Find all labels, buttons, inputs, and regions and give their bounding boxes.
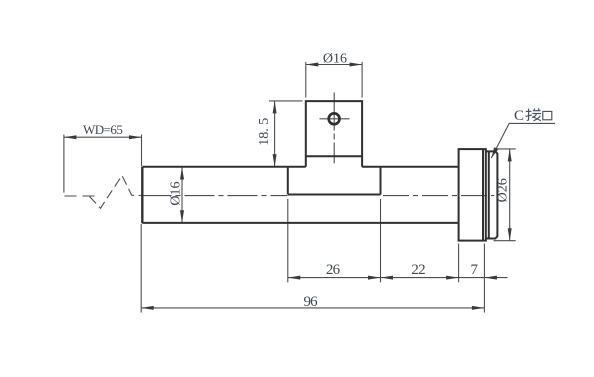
- svg-text:Ø16: Ø16: [323, 52, 347, 67]
- svg-text:C: C: [514, 108, 524, 124]
- svg-text:18. 5: 18. 5: [257, 118, 272, 146]
- svg-text:26: 26: [326, 262, 341, 278]
- svg-text:22: 22: [411, 262, 425, 278]
- svg-text:7: 7: [471, 262, 479, 278]
- svg-text:96: 96: [303, 294, 318, 310]
- svg-text:Ø16: Ø16: [169, 181, 184, 205]
- svg-text:WD=65: WD=65: [83, 122, 123, 137]
- svg-text:Ø26: Ø26: [496, 178, 511, 202]
